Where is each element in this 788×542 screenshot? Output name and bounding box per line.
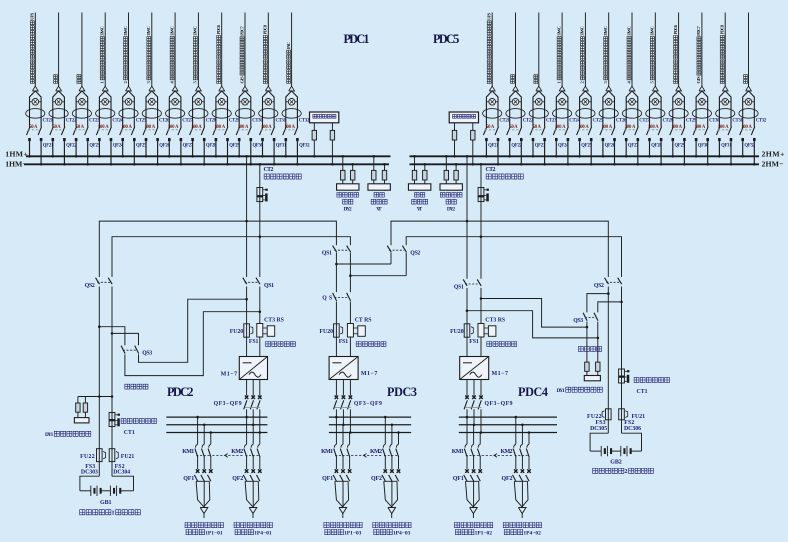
battery1 sampling resistor 2: [84, 397, 86, 404]
distribution bus PDC4 line2: [459, 424, 557, 426]
breaker QF3-QF9 blade (PDC2 ph1): [244, 400, 247, 409]
svg-text:PDC6: PDC6: [673, 24, 678, 34]
svg-text:KM2: KM2: [501, 449, 513, 455]
wire feeder R4 incoming line: [561, 13, 563, 87]
breaker QF22 pole2 blade: [61, 127, 65, 136]
wire battery1 pair below QS2: [98, 287, 100, 477]
disconnector QS3-battery2 pole1 blade: [583, 313, 587, 321]
contactor KM1 blade (PDC4-load1 ph2): [471, 449, 474, 458]
contactor KM1 contact (PDC4-load1 ph2): [472, 444, 474, 447]
feeder R10 lamp circle: [699, 99, 706, 106]
disconnector QS3-battery1 pole2 blade: [135, 346, 139, 354]
contactor KM1 blade (PDC3-load1 ph3): [347, 449, 350, 458]
drawout contact x (PDC4 ph3): [479, 396, 483, 400]
label load-current-sampling left: [264, 174, 269, 179]
breaker QF22 linkage (dashed): [508, 129, 520, 131]
svg-text:CT27: CT27: [182, 119, 193, 124]
sampling group VT-left wire 1 from positive bus: [373, 156, 375, 170]
drawout contact x (PDC2-load2 ph2): [251, 469, 255, 473]
svg-text:M1−7: M1−7: [221, 372, 238, 378]
svg-text:CT1: CT1: [637, 389, 648, 395]
breaker QF3-QF9 blade (PDC4 ph2): [471, 400, 474, 409]
svg-text:QS1: QS1: [322, 251, 332, 257]
feeder R8 lamp circle: [652, 99, 659, 106]
svg-text:CT22: CT22: [66, 119, 77, 124]
breaker QF30 linkage (dashed): [695, 129, 707, 131]
wire PDC4-load2 phase2 from bus: [521, 425, 523, 445]
bus 2HM+ (right positive bus): [410, 155, 760, 157]
svg-text:CT2: CT2: [264, 167, 274, 173]
feeder L6 fuse-switch housing: [146, 91, 158, 127]
wire feeder R6 pole2 to negative bus: [614, 141, 616, 164]
svg-text:CT22: CT22: [523, 119, 534, 124]
breaker QF23 terminal squares: [75, 138, 78, 141]
feeder L5 plug contact (triangle): [126, 86, 132, 91]
svg-text:1P4−01: 1P4−01: [254, 530, 272, 536]
breaker QF26 linkage (dashed): [601, 129, 613, 131]
svg-text:50 A: 50 A: [533, 125, 542, 130]
drawout contact x (PDC3-load1 ph2): [341, 469, 345, 473]
cable center conductor (PDC3-load1): [342, 481, 344, 507]
svg-text:PDC8: PDC8: [263, 24, 268, 34]
breaker QF23 pole1 blade: [73, 127, 77, 136]
svg-text:1P4−03: 1P4−03: [393, 530, 411, 536]
wire feeder L7 pole1 to positive bus: [168, 141, 170, 156]
wire PDC4-load2 phase3 from bus: [528, 433, 530, 445]
wire feeder R11 pole2 to negative bus: [730, 141, 732, 164]
feeder R2 fuse-switch housing: [510, 91, 522, 127]
sampling group VT-right leads: [414, 180, 416, 184]
breaker QF2 blade (PDC3-load2 ph1): [382, 475, 385, 481]
breaker QF26 pole1 blade: [143, 127, 147, 136]
wire converter output phase3 (PDC4): [480, 380, 482, 396]
breaker QF21 pole2 blade: [38, 127, 42, 136]
cable termination triangle (PDC4-load1): [470, 508, 478, 514]
current transducer CT (PDC3): [347, 324, 353, 338]
fuse FU20 (PDC3): [334, 324, 340, 337]
feeder L12 plug contact (triangle): [289, 86, 295, 91]
wire PDC2-load1 phase3 from bus: [210, 433, 212, 445]
wire feeder L8 pole1 to positive bus: [192, 141, 194, 156]
current transformer CT29 (ellipse): [212, 109, 231, 119]
svg-text:QF3−QF9: QF3−QF9: [354, 401, 382, 407]
breaker QF23 linkage (dashed): [75, 129, 87, 131]
breaker QF22 terminal squares: [52, 138, 55, 141]
sampling device box VT-left: [368, 184, 390, 190]
battery2 current sampler CT1: [619, 369, 625, 383]
current transformer CT24 (ellipse): [553, 109, 572, 119]
svg-text:50 A: 50 A: [509, 125, 518, 130]
wire PDC2 drop negative (from 1HM-): [259, 164, 261, 277]
breaker QF25 terminal squares: [578, 138, 581, 141]
wire feeder R4 pole2 to negative bus: [567, 141, 569, 164]
contactor KM2 contact (PDC4-load2 ph3): [527, 444, 529, 447]
svg-text:CT3 RS: CT3 RS: [485, 317, 505, 323]
label current transducer (PDC3): [356, 341, 361, 346]
feeder L9 plug contact (triangle): [219, 86, 225, 91]
current transformer CT22 (ellipse): [506, 109, 525, 119]
feeder L12 label: [286, 42, 291, 83]
monitor left resistor 2: [331, 123, 333, 131]
breaker QF31 pole2 blade: [728, 127, 732, 136]
distribution bus PDC4 line3: [459, 432, 557, 434]
wire feeder L5 incoming line: [128, 13, 130, 87]
svg-text:CT28: CT28: [206, 119, 217, 124]
battery GB1 cells group2: [109, 486, 111, 496]
sampling device box VT-right: [408, 184, 430, 190]
wire feeder R3 pole2 to negative bus: [544, 141, 546, 164]
wire battery2 QS3 poles down to sampler: [586, 322, 588, 363]
breaker QF3-QF9 linkage (PDC2): [245, 406, 260, 408]
wire feeder L10 incoming line: [244, 13, 246, 87]
svg-text:CT3 RS: CT3 RS: [264, 317, 284, 323]
disconnector QS1-PDC2 linkage: [245, 281, 258, 283]
breaker QF29 linkage (dashed): [214, 129, 226, 131]
breaker QF27 linkage (dashed): [168, 129, 180, 131]
contactor KM2 linkage dashes: [384, 454, 397, 456]
wire feeder R3 incoming line: [538, 13, 540, 87]
drawout contact x (PDC4 ph1): [465, 396, 469, 400]
wire PDC4 drop negative (from 2HM-): [480, 164, 482, 278]
breaker QF24 pole1 blade: [553, 127, 557, 136]
contactor KM2 linkage dashes: [515, 454, 528, 456]
wire line P (PDC4 positive to battery2 QS3): [481, 299, 587, 328]
current transformer CT28 (ellipse): [646, 109, 665, 119]
contactor KM2 contact (PDC4-load2 ph1): [514, 444, 516, 447]
current transformer CT22 (ellipse): [49, 109, 68, 119]
breaker QF24 pole1 blade: [96, 127, 100, 136]
svg-text:PDC1: PDC1: [344, 32, 370, 46]
battery GB2 cells group1: [600, 446, 602, 456]
wire feeder L9 incoming line: [221, 13, 223, 87]
feeder R11 label: [720, 24, 725, 83]
svg-text:CT31: CT31: [276, 119, 287, 124]
wire feeder L3 incoming line: [81, 13, 83, 87]
breaker QF21 linkage (dashed): [28, 129, 40, 131]
feeder L2 lamp circle: [55, 99, 62, 106]
feeder L11 label: [263, 24, 268, 83]
wire monitor right to negative bus: [472, 140, 474, 164]
feeder L8 lamp circle: [195, 99, 202, 106]
feeder L3 fuse-switch housing: [76, 91, 88, 127]
label battery current sampling (left): [121, 419, 126, 424]
feeder R9 label: [673, 24, 678, 83]
disconnector QS1-PDC4 pole2 blade: [477, 279, 481, 286]
feeder L10 plug contact (triangle): [242, 86, 248, 91]
fuse FU20 (PDC4): [464, 324, 470, 337]
current transformer CT21 (ellipse): [483, 109, 502, 119]
feeder L5 lamp circle: [125, 99, 132, 106]
breaker QF25 pole2 blade: [588, 127, 592, 136]
wire feeder L1 pole1 to positive bus: [29, 141, 31, 156]
svg-text:DY2: DY2: [343, 207, 352, 213]
contactor KM2 blade (PDC3-load2 ph3): [396, 449, 399, 458]
feeder R5 fuse-switch housing: [580, 91, 592, 127]
contactor KM1 blade (PDC2-load1 ph3): [208, 449, 211, 458]
feeder R10 label: [696, 26, 701, 84]
breaker QF3-QF9 blade (PDC3 ph3): [348, 400, 351, 409]
drawout contact x (PDC2-load2 ph1): [245, 469, 249, 473]
svg-text:DC304: DC304: [113, 470, 130, 476]
wire PDC3-load2 phase3 from bus: [398, 433, 400, 445]
svg-text:2HM−: 2HM−: [762, 160, 785, 169]
wire feeder L6 pole1 to positive bus: [145, 141, 147, 156]
wire feeder R9 incoming line: [678, 13, 680, 87]
svg-text:PDC5: PDC5: [433, 32, 459, 46]
svg-text:PDC3: PDC3: [387, 385, 417, 399]
wire below contactor (PDC2-load2 ph3): [259, 458, 261, 470]
breaker QF28 pole2 blade: [201, 127, 205, 136]
wire phase2 to distribution bus (PDC3): [342, 409, 344, 425]
breaker QF2 blade (PDC2-load2 ph1): [243, 475, 246, 481]
contactor KM2 contact (PDC2-load2 ph3): [258, 444, 260, 447]
wire feeder L7 pole2 to negative bus: [180, 141, 182, 164]
svg-text:FS1: FS1: [249, 339, 259, 345]
contactor KM2 contact (PDC3-load2 ph3): [396, 444, 398, 447]
breaker QF29 linkage (dashed): [671, 129, 683, 131]
feeder L4 fuse-switch housing: [99, 91, 111, 127]
distribution bus PDC3 line3: [329, 432, 411, 434]
distribution bus PDC2 line3: [166, 432, 267, 434]
svg-text:M1−7: M1−7: [492, 371, 509, 377]
feeder L9 label: [216, 24, 221, 83]
current transformer CT27 (ellipse): [166, 109, 185, 119]
breaker QF1 blade (PDC3-load1 ph3): [346, 475, 349, 481]
breaker QF2 blade (PDC3-load2 ph3): [395, 475, 398, 481]
fuse FU21 (left): [109, 449, 115, 462]
feeder L2 plug contact (triangle): [56, 86, 62, 91]
wire converter output phase1 (PDC4): [466, 380, 468, 396]
label VT-left: [374, 193, 379, 198]
label panel 1P1−01 (PDC2-load1): [186, 529, 191, 534]
sampling group DY2-right wire 1 from positive bus: [445, 156, 447, 170]
wire converter output phase2 (PDC3): [342, 380, 344, 396]
svg-text:CT27: CT27: [639, 119, 650, 124]
fuse FU22 (right): [606, 409, 612, 420]
svg-text:QF32: QF32: [299, 144, 310, 149]
svg-text:1P1−01: 1P1−01: [205, 530, 223, 536]
svg-text:QS1: QS1: [454, 285, 464, 291]
wire feeder L3 pole2 to negative bus: [87, 141, 89, 164]
disconnector QS3-PDC3 linkage: [334, 297, 348, 299]
feeder L10 fuse-switch housing: [239, 91, 251, 127]
wire battery2 pair below QS2: [607, 287, 609, 434]
wire feeder R11 incoming line: [724, 13, 726, 87]
svg-text:50 A: 50 A: [76, 125, 85, 130]
svg-text:PDC4: PDC4: [518, 385, 548, 399]
feeder R6 indicator link: [603, 101, 615, 103]
svg-text:QS2: QS2: [410, 251, 420, 257]
feeder L8 fuse-switch housing: [193, 91, 205, 127]
feeder R3 label: [534, 75, 538, 84]
wire below contactor (PDC4-load2 ph3): [528, 458, 530, 470]
feeder L3 plug contact (triangle): [79, 86, 85, 91]
breaker QF28 terminal squares: [191, 138, 194, 141]
contactor KM1 contact (PDC2-load1 ph2): [202, 444, 204, 447]
wire below contactor (PDC2-load2 ph1): [246, 458, 248, 470]
breaker QF1 bar (PDC3-load1): [335, 480, 348, 482]
current transformer CT32 (ellipse): [282, 109, 301, 119]
svg-text:CT25: CT25: [136, 119, 147, 124]
distribution bus PDC3 line2: [329, 424, 411, 426]
svg-text:CT30: CT30: [709, 119, 720, 124]
breaker QF3-QF9 blade (PDC4 ph1): [464, 400, 467, 409]
wire feeder L5 pole1 to positive bus: [122, 141, 124, 156]
wire PDC4-load2 phase1 from bus: [515, 417, 517, 444]
label battery current sampling (right): [634, 378, 639, 383]
breaker QF31 linkage (dashed): [261, 129, 273, 131]
bus 2HM- (right negative bus): [410, 163, 760, 165]
wire PDC3 QS2 poles: [390, 252, 392, 264]
battery GB1 loop: [80, 476, 99, 491]
contactor KM1 contact (PDC2-load1 ph1): [196, 444, 198, 447]
disconnector QS2-battery1 linkage: [97, 281, 110, 283]
contactor KM2 contact (PDC2-load2 ph1): [245, 444, 247, 447]
breaker QF2 blade (PDC2-load2 ph3): [257, 475, 260, 481]
drawout contact x (PDC4-load2 ph2): [521, 469, 525, 473]
load current sampler CT2 left: [257, 188, 263, 202]
contactor KM1 contact (PDC4-load1 ph1): [465, 444, 467, 447]
cable termination triangle (PDC3-load1): [339, 508, 347, 514]
feeder R2 indicator link: [510, 101, 522, 103]
feeder L6 plug contact (triangle): [149, 86, 155, 91]
current transformer CT26 (ellipse): [599, 109, 618, 119]
monitor right resistor 1: [454, 123, 456, 131]
breaker QF25 terminal squares: [121, 138, 124, 141]
sampling group VT-left resistor 2: [382, 170, 386, 180]
svg-text:CT21: CT21: [43, 119, 54, 124]
breaker QF32 pole2 blade: [751, 127, 755, 136]
breaker QF31 pole1 blade: [716, 127, 720, 136]
current transformer CT24 (ellipse): [96, 109, 115, 119]
breaker QF29 pole2 blade: [681, 127, 685, 136]
feeder R12 fuse-switch housing: [743, 91, 755, 127]
contactor KM1 blade (PDC3-load1 ph2): [340, 449, 343, 458]
breaker QF27 pole1 blade: [623, 127, 627, 136]
svg-text:PDC6: PDC6: [216, 24, 221, 34]
svg-text:CT26: CT26: [616, 119, 627, 124]
feeder R7 fuse-switch housing: [626, 91, 638, 127]
contactor KM2 blade (PDC2-load2 ph3): [257, 449, 260, 458]
wire phase2 to distribution bus (PDC4): [473, 409, 475, 425]
wire feeder R5 pole1 to positive bus: [579, 141, 581, 156]
breaker QF27 pole2 blade: [635, 127, 639, 136]
svg-text:UPS: UPS: [487, 12, 492, 20]
svg-text:33WC: 33WC: [580, 26, 585, 36]
sampling group DY2-right leads: [445, 180, 447, 184]
current transformer CT30 (ellipse): [235, 109, 254, 119]
feeder R10 fuse-switch housing: [696, 91, 708, 127]
svg-text:VT: VT: [417, 207, 423, 213]
svg-text:DC303: DC303: [81, 470, 98, 476]
svg-text:KM2: KM2: [370, 449, 382, 455]
battery GB2 cells group2: [620, 446, 622, 456]
breaker QF23 linkage (dashed): [531, 129, 543, 131]
breaker QF31 pole2 blade: [271, 127, 275, 136]
wire feeder L6 incoming line: [151, 13, 153, 87]
wire feeder L2 incoming line: [58, 13, 60, 87]
wire PDC3-load2 phase2 from bus: [391, 425, 393, 445]
converter DC symbol (PDC3): [332, 362, 341, 364]
contactor KM2 contact (PDC4-load2 ph2): [520, 444, 522, 447]
wire feeder R12 pole2 to negative bus: [753, 141, 755, 164]
wire PDC3-load1 phase2: [342, 425, 344, 445]
label VT-right: [415, 193, 420, 198]
svg-text:2HM+: 2HM+: [762, 149, 786, 158]
breaker QF21 pole1 blade: [27, 127, 31, 136]
wire feeder R2 pole1 to positive bus: [509, 141, 511, 156]
wire feeder L2 pole2 to negative bus: [63, 141, 65, 164]
feeder L12 lamp circle: [288, 99, 295, 106]
disconnector QS2-battery1 pole1 blade: [96, 278, 100, 285]
wire feeder L5 pole2 to negative bus: [133, 141, 135, 164]
breaker QF2 bar (PDC4-load2): [514, 480, 527, 482]
breaker QF32 terminal squares: [285, 138, 288, 141]
breaker QF21 pole1 blade: [483, 127, 487, 136]
feeder R4 label: [556, 26, 561, 83]
wire below contactor (PDC2-load1 ph3): [210, 458, 212, 470]
breaker QF2 blade (PDC4-load2 ph1): [513, 475, 516, 481]
breaker QF26 terminal squares: [145, 138, 148, 141]
wire feeder R7 pole2 to negative bus: [637, 141, 639, 164]
svg-text:CT28: CT28: [663, 119, 674, 124]
feeder L10 indicator link: [239, 101, 251, 103]
feeder L7 label: [169, 26, 174, 83]
label battery-discharge (dian chi fang dian): [578, 347, 583, 352]
feeder R11 indicator link: [719, 101, 731, 103]
cable funnel (PDC4-load1): [466, 481, 474, 507]
breaker QF29 terminal squares: [672, 138, 675, 141]
drawout contact x (PDC4-load1 ph1): [465, 469, 469, 473]
svg-text:33WC: 33WC: [193, 26, 198, 36]
wire below contactor (PDC3-load2 ph2): [391, 458, 393, 470]
svg-text:QF1: QF1: [322, 476, 333, 482]
sampling group VT-left leads: [373, 180, 375, 184]
disconnector QS3-PDC3 pole2 blade: [347, 293, 351, 301]
svg-text:FU20: FU20: [320, 329, 334, 335]
wire feeder R10 pole1 to positive bus: [695, 141, 697, 156]
breaker QF29 terminal squares: [215, 138, 218, 141]
cable termination triangle (PDC2-load1): [200, 508, 208, 514]
sampling group VT-right wire 1 from positive bus: [414, 156, 416, 170]
svg-text:GB2: GB2: [610, 460, 622, 466]
disconnector QS1-PDC3 pole2 blade: [347, 246, 351, 253]
feeder R6 lamp circle: [605, 99, 612, 106]
breaker QF29 pole1 blade: [213, 127, 217, 136]
feeder L12 indicator link: [286, 101, 298, 103]
breaker QF21 terminal squares: [485, 138, 488, 141]
drawout contact x (PDC3 ph3): [349, 396, 353, 400]
wire phase3 to distribution bus (PDC3): [349, 409, 351, 432]
feeder R12 plug contact (triangle): [746, 86, 752, 91]
breaker QF25 linkage (dashed): [121, 129, 133, 131]
feeder L11 lamp circle: [265, 99, 272, 106]
wire feeder L3 pole1 to positive bus: [75, 141, 77, 156]
wire feeder L1 pole2 to negative bus: [40, 141, 42, 164]
cable funnel (PDC2-load1): [196, 481, 204, 507]
disconnector QS3-battery1 linkage: [123, 349, 137, 351]
svg-text:FU20: FU20: [230, 329, 244, 335]
feeder R2 plug contact (triangle): [513, 86, 519, 91]
wire phase3 to distribution bus (PDC2): [259, 409, 261, 432]
svg-text:GB1: GB1: [100, 500, 112, 506]
wire battery1 QS3 pole1 step to PDC2 negative: [125, 312, 260, 376]
svg-text:DC305: DC305: [590, 426, 607, 432]
wire monitor left to negative bus: [331, 140, 333, 164]
current transformer CT25 (ellipse): [576, 109, 595, 119]
wire feeder L1 incoming line: [34, 13, 36, 87]
sampling group VT-right resistor 1: [412, 170, 416, 180]
